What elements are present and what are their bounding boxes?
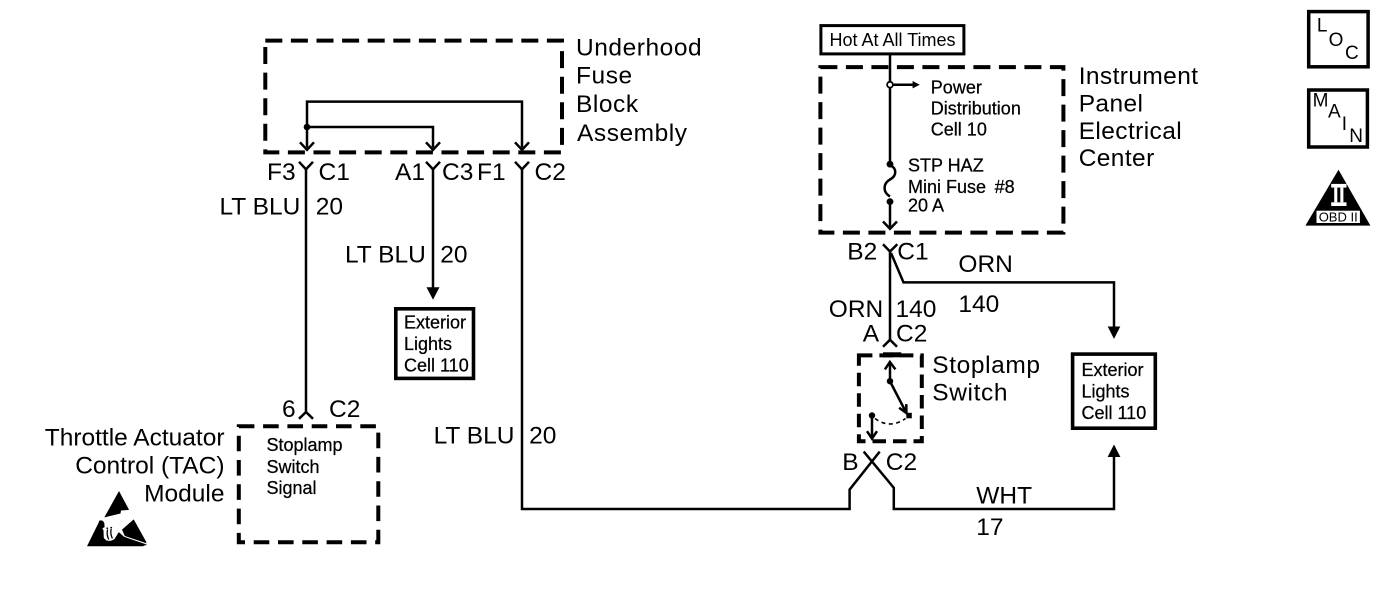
wire from hot at all times [889,54,892,82]
svg-text:ORN: ORN [958,251,1012,278]
wire to fuse [889,88,892,164]
switch fixed contact bar [883,352,901,357]
wire LT BLU from C2 to stoplamp switch B [522,169,880,509]
switch output wire down [867,416,877,439]
svg-text:ORN: ORN [829,296,883,323]
instrument panel electrical center dashed box [820,67,1063,233]
svg-text:B2: B2 [847,239,877,266]
exterior lights cell 110 box (right) [1073,354,1156,428]
svg-text:Signal: Signal [267,478,317,498]
svg-text:Cell 10: Cell 10 [931,119,987,139]
svg-text:B: B [842,449,858,476]
svg-text:A: A [863,321,880,348]
ESD sensitive device symbol [87,491,147,546]
svg-text:I: I [1342,114,1347,135]
svg-text:20: 20 [440,242,467,269]
svg-text:A: A [1328,102,1341,123]
junction dot [304,124,311,131]
svg-text:C3: C3 [442,159,473,186]
wire LT BLU from C1 to TAC module [305,169,308,412]
label: Throttle Actuator Control (TAC) Module [45,424,225,507]
svg-text:LT BLU: LT BLU [345,242,426,269]
exterior lights cell 110 box (left) [396,309,474,379]
svg-text:Exterior: Exterior [1082,360,1144,380]
arrow into exterior lights box top [1108,327,1121,339]
OBD II icon [1305,170,1370,226]
switch travel dashed arc [875,419,906,425]
svg-text:Stoplamp: Stoplamp [932,352,1040,379]
arrow at B2 [883,222,897,229]
connector B2/C1 [883,244,897,251]
svg-text:Cell 110: Cell 110 [404,355,469,375]
svg-text:Lights: Lights [404,334,452,354]
underhood fuse block assembly dashed box [265,41,562,153]
wire from fuse to B2 [889,203,892,229]
svg-text:Lights: Lights [1082,382,1130,402]
svg-text:20: 20 [316,194,343,221]
svg-text:Underhood: Underhood [576,35,702,62]
switch left contact dot [869,412,875,418]
svg-text:WHT: WHT [976,483,1032,510]
svg-text:N: N [1349,126,1363,147]
arrow into A1 pin [426,142,440,150]
svg-text:OBD II: OBD II [1319,209,1358,224]
splice circle [887,82,893,88]
svg-text:20 A: 20 A [908,196,944,216]
svg-text:A1: A1 [395,159,425,186]
svg-text:C2: C2 [329,396,360,423]
svg-text:140: 140 [896,296,937,323]
svg-text:17: 17 [976,514,1003,541]
switch arm arrow up [885,362,896,381]
LOC icon [1309,12,1368,67]
switch pivot dot [887,378,893,384]
label: Exterior Lights Cell 110 [1082,360,1147,423]
connector A1/C3 [426,162,440,170]
connector F1/C2 [515,162,529,170]
svg-text:C1: C1 [319,159,350,186]
connector F3/C1 [299,162,313,170]
svg-text:F3: F3 [267,159,296,186]
svg-text:LT BLU: LT BLU [220,194,301,221]
svg-text:Hot At All Times: Hot At All Times [830,30,956,50]
svg-text:M: M [1313,91,1329,112]
label: Stoplamp Switch [932,352,1040,406]
arrow into F1 pin [515,142,529,150]
throttle actuator control module dashed box [239,426,378,542]
svg-text:Stoplamp: Stoplamp [267,435,343,455]
svg-text:Instrument: Instrument [1079,63,1199,90]
label: Stoplamp Switch Signal [267,435,343,498]
connector A/C2 [883,340,897,347]
wire: fuse block bus branch to A1 [307,127,433,148]
arrow into exterior lights box bottom [1108,445,1121,458]
label: Underhood Fuse Block Assembly [576,35,702,148]
svg-text:Distribution: Distribution [931,98,1021,118]
wire: fuse block bus F3 to F1 [307,102,522,148]
label: Power Distribution Cell 10 [931,77,1021,139]
svg-text:C2: C2 [886,449,917,476]
svg-text:STP HAZ: STP HAZ [908,155,984,175]
svg-text:Switch: Switch [267,457,320,477]
svg-text:6: 6 [282,396,296,423]
svg-text:C: C [1345,43,1359,64]
svg-text:Switch: Switch [932,379,1008,406]
svg-text:Fuse: Fuse [576,62,633,89]
wire ORN to stoplamp switch [889,252,892,340]
svg-text:Control (TAC): Control (TAC) [75,452,224,479]
svg-text:Assembly: Assembly [577,120,688,147]
svg-text:Cell 110: Cell 110 [1082,403,1147,423]
svg-text:F1: F1 [477,159,506,186]
fuse STP HAZ [885,161,896,205]
stoplamp switch dashed box [859,355,922,441]
arrow into exterior lights box [427,287,440,300]
label: STP HAZ Mini Fuse #8 20 A [908,155,1015,215]
label: Instrument Panel Electrical Center [1079,63,1199,172]
svg-text:Mini Fuse #8: Mini Fuse #8 [908,177,1015,197]
connector 6/C2 [299,412,313,419]
svg-text:Center: Center [1079,145,1155,172]
svg-text:LT BLU: LT BLU [434,422,515,449]
svg-text:O: O [1329,30,1344,51]
arrow to power distribution [893,81,920,88]
svg-text:Power: Power [931,77,982,97]
wire WHT from switch B to exterior lights [864,452,1114,509]
wire ORN branch to exterior lights [891,253,1114,327]
svg-text:20: 20 [529,422,556,449]
MAIN icon [1309,90,1368,147]
svg-text:C2: C2 [535,159,566,186]
svg-text:Throttle Actuator: Throttle Actuator [45,424,225,451]
svg-text:140: 140 [958,291,999,318]
switch blade [891,383,907,414]
svg-text:Exterior: Exterior [404,312,466,332]
svg-text:Block: Block [576,91,639,118]
svg-text:Panel: Panel [1079,91,1144,118]
svg-text:Electrical: Electrical [1079,118,1182,145]
svg-text:Module: Module [144,481,224,508]
label: Exterior Lights Cell 110 [404,312,469,375]
svg-text:C1: C1 [897,239,928,266]
hot at all times box [821,26,964,54]
switch throw contact dot [906,413,912,419]
svg-text:L: L [1317,15,1328,36]
wire LT BLU from C3 to exterior lights [432,169,435,288]
arrow into F3 pin [300,142,314,150]
svg-text:C2: C2 [896,321,927,348]
